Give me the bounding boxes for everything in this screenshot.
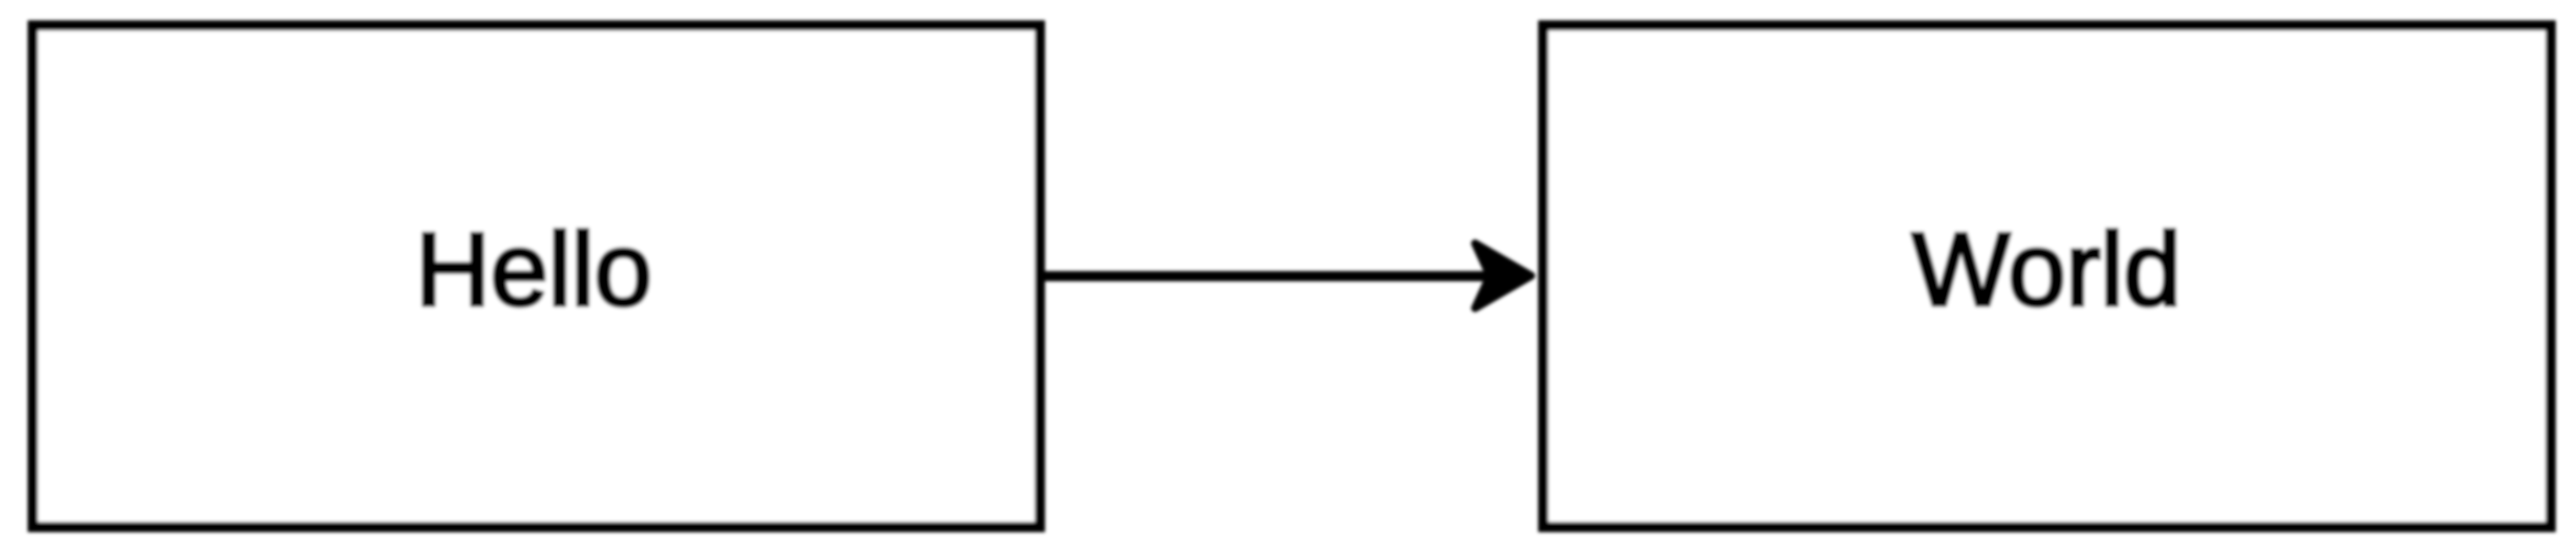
node World box: [1543, 26, 2550, 527]
node Hello box: [33, 26, 1040, 527]
wire arrow shaft Hello to World: [1045, 271, 1488, 282]
svg-text:World: World: [1912, 212, 2182, 328]
svg-text:Hello: Hello: [415, 212, 652, 328]
arrowhead: [1475, 243, 1531, 308]
